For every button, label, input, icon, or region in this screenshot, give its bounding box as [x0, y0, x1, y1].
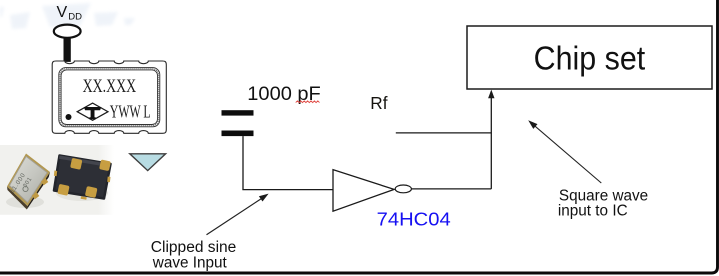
svg-text:input to IC: input to IC	[558, 203, 628, 220]
spellcheck squiggle	[296, 101, 320, 103]
capacitor C1 bottom plate	[222, 131, 254, 137]
pin 1 dot	[66, 114, 72, 120]
inverter output bubble	[395, 185, 411, 193]
annotation square wave arrow	[534, 125, 602, 183]
wire up to chip set	[490, 97, 492, 189]
capacitor C1 top plate	[222, 110, 254, 115]
wire capacitor down	[242, 136, 244, 190]
oscillator X1 package outline	[52, 61, 166, 133]
logo diamond	[77, 103, 108, 120]
svg-text:Clipped sine: Clipped sine	[151, 239, 237, 256]
svg-text:wave Input: wave Input	[152, 255, 228, 272]
svg-text:XX.XXX: XX.XXX	[83, 76, 137, 97]
wire inverter output	[411, 188, 491, 190]
oscillator inner decorative border	[59, 68, 160, 127]
svg-text:Chip set: Chip set	[534, 40, 646, 77]
VDD supply terminal	[54, 25, 81, 38]
inverter U1 74HC04	[333, 170, 394, 212]
chip set box	[467, 26, 712, 89]
node VDD label	[57, 4, 83, 23]
svg-text:DD: DD	[68, 11, 82, 22]
svg-text:Rf: Rf	[370, 93, 387, 113]
logo T	[84, 107, 101, 119]
wire VDD to oscillator	[64, 37, 71, 62]
photo right oscillator shadow	[56, 185, 108, 201]
photo left oscillator shadow	[6, 196, 44, 208]
alignment triangle marker	[130, 154, 166, 171]
svg-text:74HC04: 74HC04	[377, 209, 451, 230]
photo background	[0, 145, 114, 215]
photo left oscillator (top view, gold/ceramic)	[7, 154, 50, 210]
wire to inverter input	[242, 189, 334, 191]
wire Rf feedback	[396, 132, 492, 134]
annotation clipped sine arrow	[207, 197, 264, 235]
svg-text:V: V	[57, 4, 68, 21]
arrowhead into chip set	[488, 90, 494, 99]
watermark	[0, 3, 135, 29]
svg-text:YWW L: YWW L	[110, 102, 151, 122]
photo right oscillator (bottom view, black with gold pads)	[54, 156, 111, 200]
